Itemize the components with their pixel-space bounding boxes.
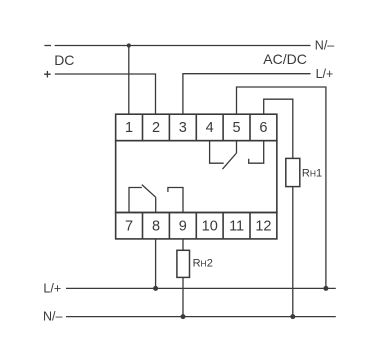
relay body outline [116, 141, 277, 213]
contact K2: terminal 7 fixed lead [129, 188, 142, 213]
svg-text:AC/DC: AC/DC [263, 51, 307, 67]
contact K1: terminal 6 fixed lead with tick [249, 141, 264, 164]
wire: terminal 1 to top N/- line [128, 46, 130, 115]
node: junction top N/- line and terminal 1 [127, 43, 131, 47]
terminal strip bottom (terminals 7-12) [116, 213, 277, 239]
wire: resistor RH1 to bottom N/- line [292, 187, 294, 317]
svg-text:RH1: RH1 [302, 168, 322, 180]
contact K1: terminal 5 common lead [236, 141, 238, 153]
wire: terminal 9 down to resistor RH2 [182, 239, 184, 250]
svg-text:5: 5 [233, 120, 241, 136]
wire: top L/+ line to terminal 3 [183, 74, 311, 115]
wire: bottom L/+ line [66, 287, 336, 289]
wire: terminal 8 down to bottom L/+ line [155, 239, 157, 289]
resistor RH1 [286, 158, 300, 186]
wire: terminal 6 to resistor RH1 [264, 99, 293, 158]
node: junction terminal 8 wire and bottom L/+ line [153, 286, 158, 291]
node: junction RH2 wire and bottom N/- line [181, 314, 186, 319]
wire: terminal 5 to right rail down to bottom L/+ line [237, 87, 326, 288]
svg-text:9: 9 [179, 219, 187, 235]
svg-text:11: 11 [229, 219, 244, 235]
contact K1: terminal 4 fixed lead [210, 141, 224, 164]
terminal strip top (terminals 1-6) [116, 114, 277, 141]
svg-text:8: 8 [152, 219, 160, 235]
contact K1: moving blade [223, 153, 237, 169]
wire: bottom N/- line [66, 316, 336, 318]
svg-text:4: 4 [206, 120, 214, 136]
contact K2: moving blade [142, 185, 156, 198]
svg-text:10: 10 [202, 219, 218, 235]
svg-text:3: 3 [179, 120, 187, 136]
svg-text:12: 12 [255, 219, 271, 235]
label: plus polarity of DC input (drawn cross) [44, 71, 51, 78]
wire: DC + line to terminal 2 [55, 74, 156, 114]
svg-text:N/–: N/– [315, 39, 335, 53]
node: junction RH1 wire and bottom N/- line [290, 314, 295, 319]
label: minus polarity of DC input (drawn dash) [44, 45, 51, 47]
contact K2: terminal 8 common lead [155, 197, 157, 212]
svg-text:DC: DC [54, 52, 74, 68]
node: junction right rail and bottom L/+ line [323, 286, 328, 291]
svg-text:2: 2 [152, 120, 160, 136]
svg-text:RH2: RH2 [193, 258, 213, 270]
svg-text:L/+: L/+ [43, 281, 61, 295]
svg-text:N/–: N/– [43, 310, 63, 324]
svg-text:7: 7 [125, 219, 133, 235]
svg-text:1: 1 [125, 120, 133, 136]
wire: top N/- supply line [55, 45, 311, 47]
svg-text:6: 6 [259, 120, 267, 136]
resistor RH2 [177, 250, 190, 277]
svg-text:L/+: L/+ [316, 67, 334, 81]
wire: resistor RH2 to bottom N/- line [182, 277, 184, 316]
contact K2: terminal 9 fixed lead with tick [168, 188, 183, 213]
